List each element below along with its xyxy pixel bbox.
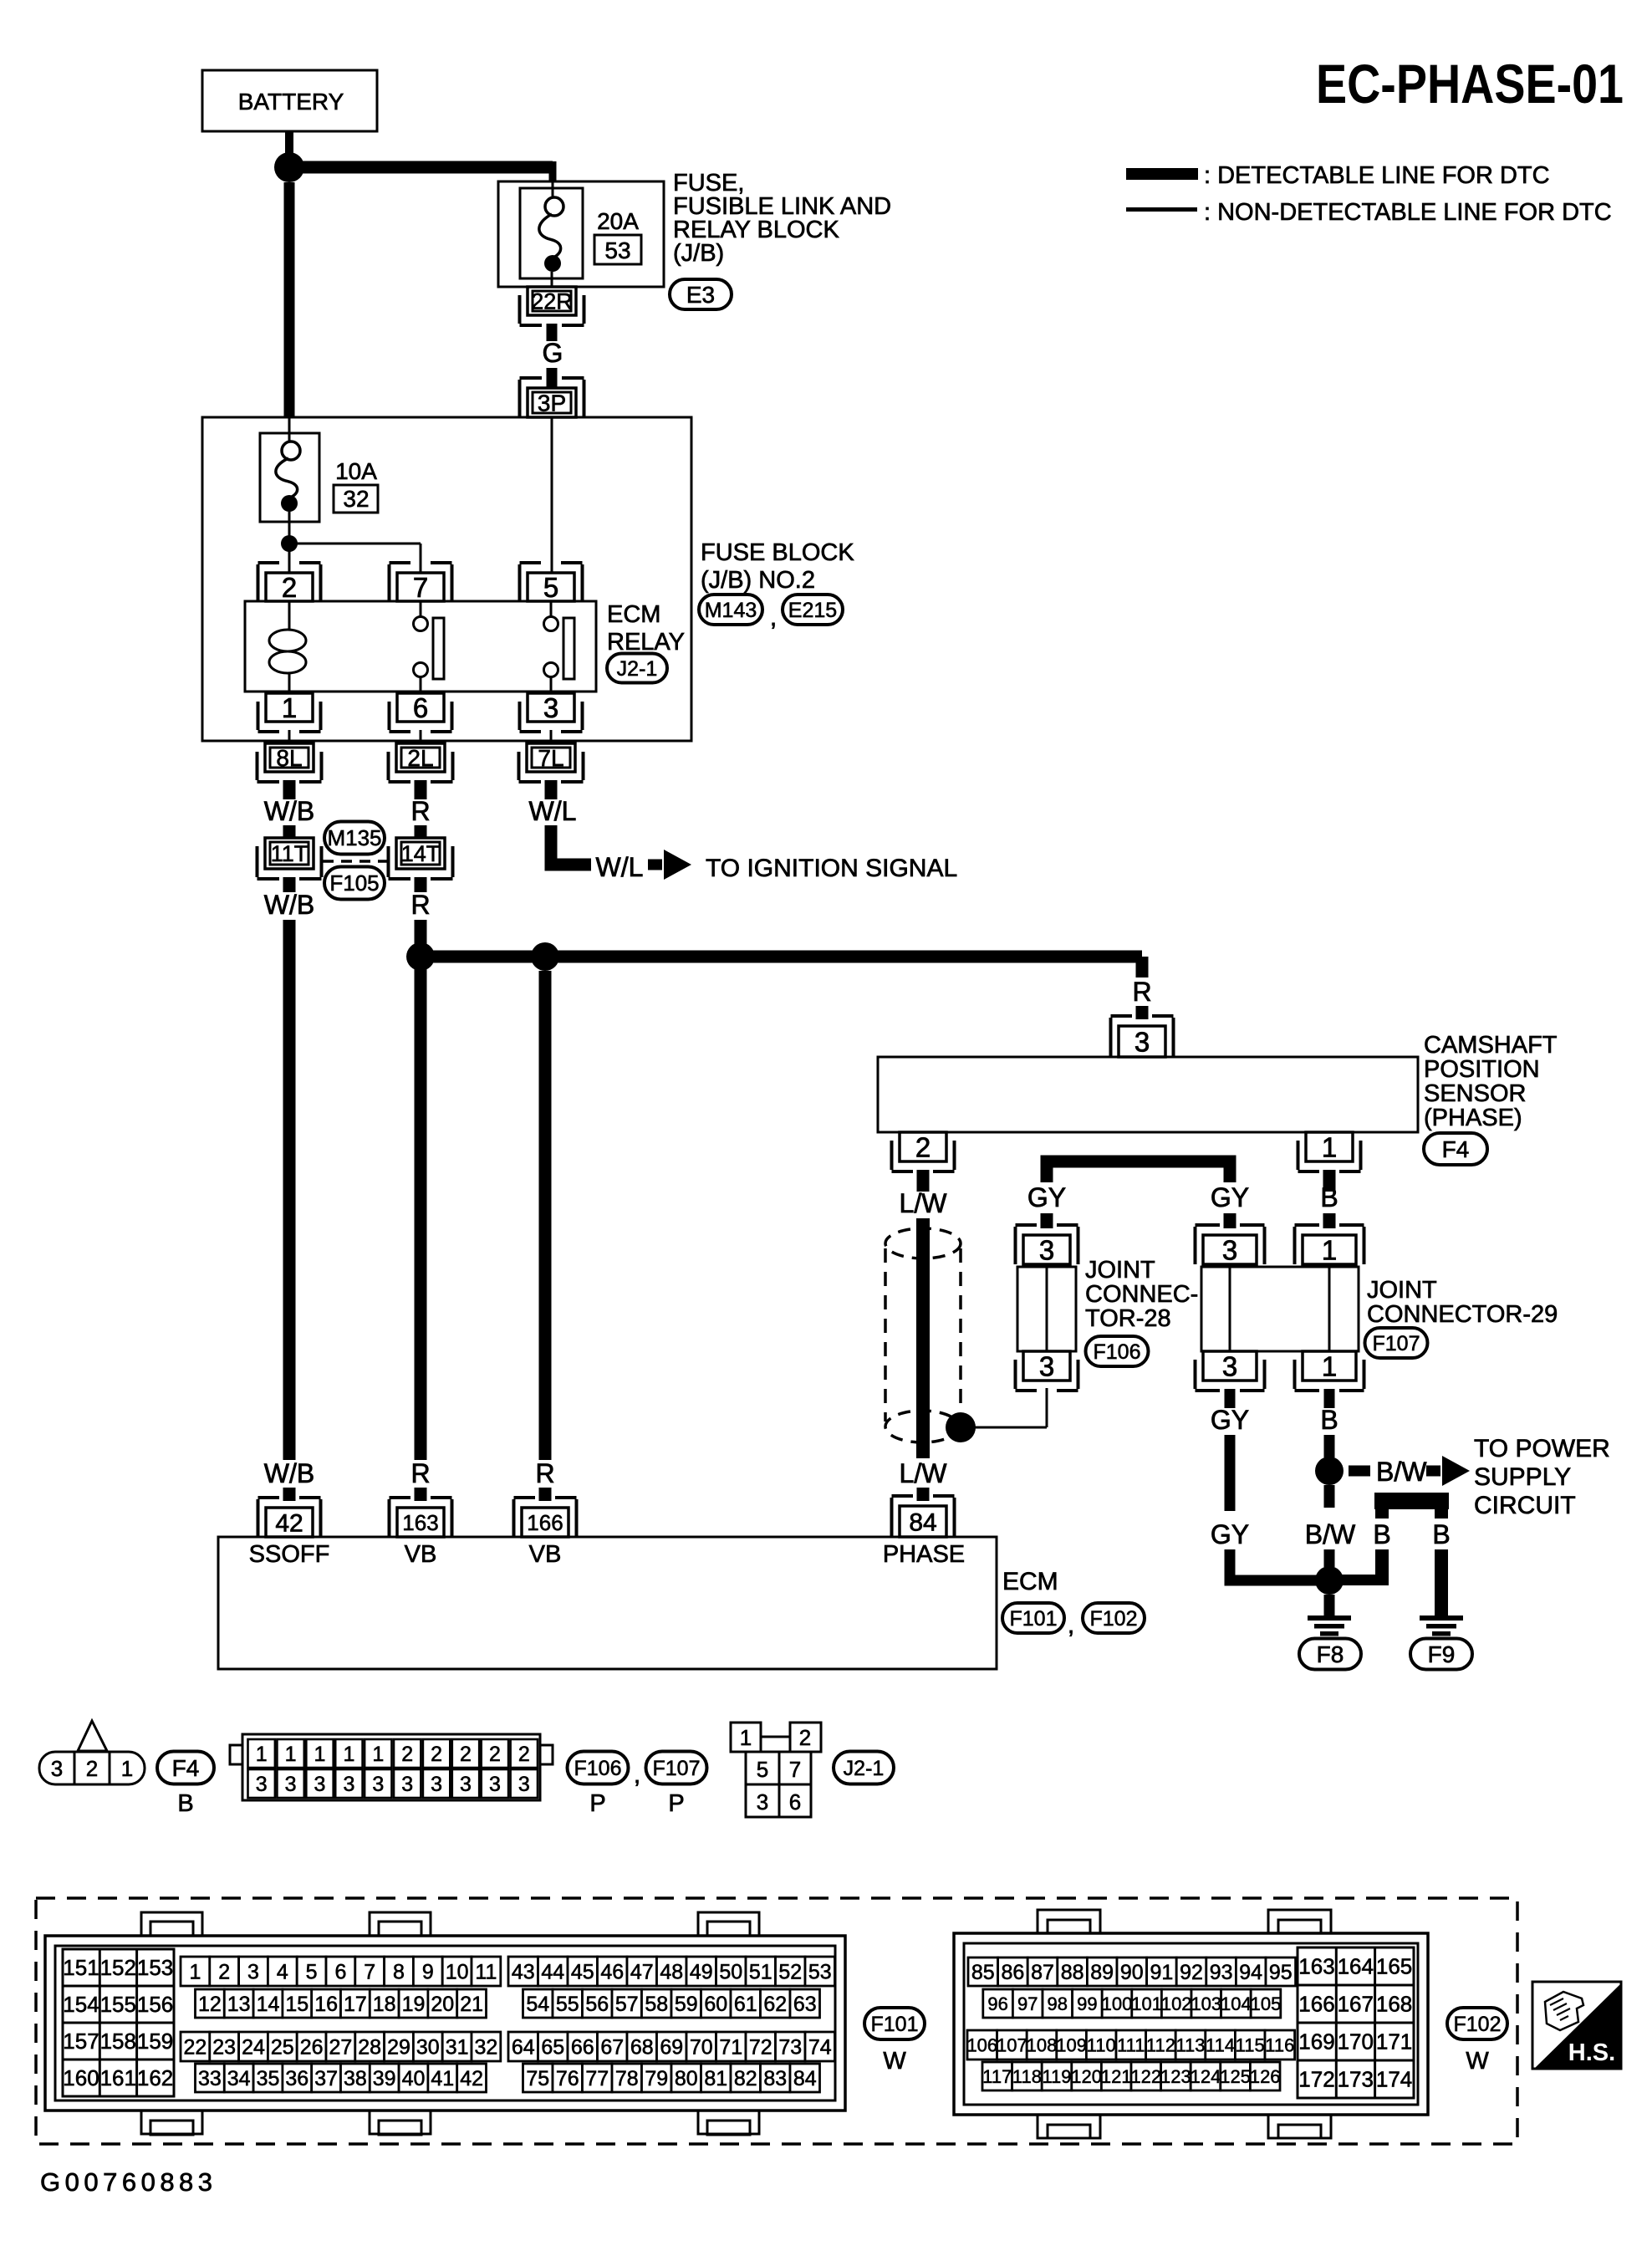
svg-text:75: 75 [526,2067,549,2090]
svg-text:JOINT: JOINT [1085,1257,1155,1284]
ECM F101 pins 12-21 row [196,1989,225,2018]
svg-text:48: 48 [660,1961,683,1984]
svg-text:166: 166 [1298,1992,1334,2017]
svg-text:3: 3 [1134,1026,1150,1057]
svg-text:2: 2 [460,1743,472,1766]
svg-text:2: 2 [799,1725,811,1750]
wire fuse 20A to 22R [551,272,553,287]
svg-text:88: 88 [1061,1961,1084,1984]
svg-text:99: 99 [1077,1993,1097,2014]
sensor pin 3 [1119,1026,1165,1057]
svg-text:L/W: L/W [900,1188,948,1218]
wire stub 11T down [283,877,296,892]
svg-text:60: 60 [704,1993,727,2016]
svg-text:7: 7 [413,572,428,603]
svg-text:10: 10 [446,1961,469,1984]
svg-text:110: 110 [1087,2034,1116,2055]
wire thick drop into fuse block E3 [549,161,557,182]
svg-text:F107: F107 [653,1757,701,1780]
svg-text:170: 170 [1338,2029,1374,2054]
wire stub 14T down [415,877,427,892]
svg-text:71: 71 [719,2036,742,2060]
ECM F102 pins 117-126 row [982,2062,1012,2090]
svg-text:93: 93 [1210,1961,1233,1984]
svg-text:2L: 2L [407,745,433,771]
wire stub into 11T [283,825,296,838]
wire stub GY into joint connector-29 [1224,1213,1236,1228]
wire stub 8L down [283,780,296,799]
svg-text:F106: F106 [1094,1340,1141,1364]
svg-text:1: 1 [282,692,297,723]
pin 3P [528,388,576,417]
svg-text:83: 83 [763,2067,787,2090]
wire B/W below node [1324,1485,1335,1508]
svg-text:84: 84 [909,1508,936,1536]
svg-text:B: B [177,1790,193,1817]
svg-text:113: 113 [1175,2034,1205,2055]
svg-text:ECM: ECM [1002,1568,1058,1595]
svg-text:36: 36 [285,2067,308,2090]
svg-text:W/L: W/L [596,852,644,882]
svg-text:TO IGNITION SIGNAL: TO IGNITION SIGNAL [706,855,957,882]
svg-text:R: R [410,890,430,920]
connector F4 oval (strip) [157,1752,214,1784]
joint connector-28 bottom pin 3 [1023,1351,1070,1381]
svg-text:32: 32 [474,2036,497,2060]
relay pin 6 [397,693,444,722]
svg-text:B: B [1373,1519,1390,1549]
svg-text:6: 6 [334,1961,346,1984]
svg-text:2: 2 [86,1756,98,1781]
svg-text:W/B: W/B [264,796,314,826]
svg-text:51: 51 [749,1961,772,1984]
svg-text:3: 3 [1222,1350,1237,1381]
svg-text:52: 52 [778,1961,802,1984]
wire into fuse 20A [552,181,554,198]
svg-text:61: 61 [734,1993,757,2016]
svg-text:156: 156 [137,1992,173,2017]
svg-text:SENSOR: SENSOR [1424,1080,1526,1107]
svg-text:E3: E3 [686,282,715,308]
svg-text:8: 8 [393,1961,405,1984]
label 32 box [334,485,378,513]
svg-text:37: 37 [314,2067,338,2090]
ECM pinout dashed border [36,1898,1517,2144]
svg-text:W/L: W/L [529,796,577,826]
svg-text:39: 39 [373,2067,396,2090]
svg-text:F107: F107 [1373,1332,1420,1355]
ECM F102 pins 163-174 grid [1298,1947,1414,2098]
pin 22R [528,287,576,315]
svg-text:157: 157 [63,2029,99,2054]
svg-text:2: 2 [401,1743,413,1766]
svg-text:2: 2 [489,1743,501,1766]
svg-text:2: 2 [518,1743,530,1766]
svg-text:49: 49 [690,1961,713,1984]
svg-text:76: 76 [556,2067,579,2090]
wire B down to node [1324,1435,1335,1457]
svg-text:115: 115 [1236,2034,1265,2055]
svg-text:1: 1 [256,1743,268,1766]
H.S. hologram logo [1532,1982,1621,2069]
wire stub W/B into pin 42 [283,1488,296,1501]
svg-text:GY: GY [1211,1405,1249,1435]
svg-text:38: 38 [344,2067,367,2090]
wire dash node to B/W arrow [1349,1466,1370,1477]
svg-text:108: 108 [1027,2034,1058,2055]
svg-text:3: 3 [1039,1234,1054,1265]
svg-text:3: 3 [401,1773,413,1796]
svg-text:160: 160 [63,2065,99,2090]
svg-text:CONNEC-: CONNEC- [1085,1281,1198,1308]
svg-text:B: B [1320,1405,1338,1435]
svg-text:174: 174 [1376,2067,1412,2092]
svg-text:3: 3 [343,1773,354,1796]
svg-text:G: G [543,338,563,368]
svg-text:1: 1 [314,1743,326,1766]
svg-text:114: 114 [1206,2034,1235,2055]
connector E3 oval [670,279,732,309]
wire W/B long down to ECM [283,920,296,1460]
svg-text:6: 6 [789,1789,801,1815]
svg-text:102: 102 [1161,1993,1192,2014]
svg-text:6: 6 [413,692,428,723]
sensor connector face triangle [78,1721,107,1751]
svg-text:117: 117 [982,2066,1012,2087]
wire relay pin1 to 8L [288,730,291,743]
sensor connector face 3-2-1 [39,1752,145,1784]
ground F8 symbol [1308,1616,1351,1621]
svg-text:112: 112 [1146,2034,1175,2055]
shield dashed right line [959,1248,962,1403]
svg-text:151: 151 [63,1955,99,1980]
svg-text:3: 3 [543,692,558,723]
relay pin 1 [266,693,313,722]
battery BATTERY box [202,70,377,131]
connector F106 oval (strip) [568,1752,629,1784]
joint connector-29 bottom pin 3 [1203,1351,1257,1381]
ECM F102 pins 106-116 row [967,2030,997,2060]
svg-text:F105: F105 [329,870,379,896]
wire stub B into joint connector-29 [1323,1213,1336,1228]
svg-text:SUPPLY: SUPPLY [1474,1463,1571,1491]
svg-text:104: 104 [1221,1993,1252,2014]
svg-text:TO POWER: TO POWER [1474,1435,1610,1462]
connector M135 oval [324,822,385,855]
svg-text:3: 3 [247,1961,259,1984]
svg-text:P: P [589,1790,605,1817]
ECM F101 pins 1-11 row [181,1957,210,1986]
pin 163 [397,1508,444,1537]
svg-text:5: 5 [543,572,558,603]
svg-text:97: 97 [1017,1993,1038,2014]
ECM F101 pins 75-84 row [523,2064,553,2092]
connector F106 oval [1086,1336,1149,1366]
svg-text:E215: E215 [788,599,837,622]
svg-text:123: 123 [1160,2066,1191,2087]
svg-text:154: 154 [63,1992,99,2017]
svg-text:32: 32 [343,486,369,512]
svg-text:45: 45 [571,1961,594,1984]
svg-text:F4: F4 [172,1755,200,1781]
svg-text:162: 162 [137,2065,173,2090]
svg-text:158: 158 [100,2029,136,2054]
svg-text:3: 3 [51,1756,63,1781]
pin 42 [266,1508,313,1537]
svg-text:GY: GY [1027,1182,1066,1212]
joint connector-29 bottom pin 1 [1303,1351,1356,1381]
node ground junction dot [1315,1566,1344,1595]
svg-text:58: 58 [645,1993,668,2016]
node R junction dot 1 [406,942,435,971]
svg-text:F101: F101 [871,2013,919,2036]
wire L/W down through shield [916,1218,930,1458]
svg-text:26: 26 [300,2036,324,2060]
svg-text:85: 85 [971,1961,995,1984]
svg-text:1: 1 [1322,1234,1337,1265]
svg-text:ECM: ECM [607,601,660,628]
ECM relay box [245,601,596,692]
ECM F101 pins 54-63 row [523,1989,553,2018]
joint connector-29 top pin 1 [1303,1235,1356,1264]
svg-text:F102: F102 [1090,1607,1138,1631]
wire stub sensor pin2 down [917,1170,930,1192]
svg-text:47: 47 [630,1961,654,1984]
node R junction dot 2 [531,942,559,971]
svg-text:28: 28 [358,2036,381,2060]
svg-text:94: 94 [1239,1961,1262,1984]
svg-text:3: 3 [1222,1234,1237,1265]
svg-text:65: 65 [541,2036,564,2060]
svg-text:53: 53 [604,237,630,263]
svg-text:126: 126 [1250,2066,1281,2087]
wire R long down to ECM [415,920,427,1460]
wire B/W to ground node [1324,1549,1335,1567]
svg-text:23: 23 [212,2036,236,2060]
connector F107 oval [1365,1328,1428,1358]
legend non-detectable line sample [1126,207,1197,212]
svg-text:53: 53 [808,1961,832,1984]
svg-text:165: 165 [1376,1954,1412,1979]
wire 3P to relay pin 5 [551,417,553,574]
svg-text:(J/B): (J/B) [673,240,724,267]
relay pin 3 [528,693,574,722]
svg-text:F4: F4 [1442,1136,1470,1162]
pin 2L [396,743,445,772]
svg-text:F101: F101 [1010,1607,1058,1631]
fuse block (J/B) NO.2 box [202,417,691,741]
wire W/L down and right [551,825,591,865]
wire GY bus [1047,1161,1230,1182]
ECM connector F102 housing [954,1933,1428,2115]
relay contact 7-6 [420,601,422,617]
ECM connector F101 housing [45,1936,845,2111]
svg-text:J2-1: J2-1 [844,1757,885,1780]
svg-text:73: 73 [778,2036,802,2060]
svg-text:2: 2 [915,1131,931,1162]
node shield drain dot [946,1412,976,1442]
svg-text:M143: M143 [705,599,757,622]
fuse/fusible-link/relay block E3 box [498,181,664,287]
svg-text:P: P [668,1790,684,1817]
svg-text:70: 70 [690,2036,713,2060]
connector F105 oval [324,867,385,900]
svg-text:3P: 3P [538,390,566,416]
sensor pin 1 [1306,1132,1353,1161]
wire B bridge bar [1374,1493,1449,1509]
svg-text:3: 3 [460,1773,472,1796]
svg-text:56: 56 [585,1993,609,2016]
svg-text:69: 69 [660,2036,683,2060]
svg-text:GY: GY [1211,1182,1249,1212]
relay pin 7 [397,573,444,601]
svg-text:81: 81 [704,2067,727,2090]
connector F101 oval [1002,1603,1064,1633]
svg-text:18: 18 [373,1993,396,2016]
svg-text:3: 3 [431,1773,442,1796]
fuse 10A symbol [282,442,300,460]
svg-text:163: 163 [402,1510,438,1535]
svg-text:40: 40 [402,2067,426,2090]
svg-text:SSOFF: SSOFF [249,1541,330,1568]
svg-text:(J/B) NO.2: (J/B) NO.2 [701,567,815,594]
svg-text:62: 62 [763,1993,787,2016]
wire stub into 14T [415,825,427,838]
joint connector-28 body [1017,1267,1076,1351]
svg-text:3: 3 [314,1773,326,1796]
svg-text:68: 68 [630,2036,654,2060]
svg-text:11: 11 [475,1961,497,1984]
shield dashed cylinder top ellipse [885,1228,961,1258]
wire stub sensor pin1 down [1323,1170,1336,1192]
svg-text:78: 78 [615,2067,639,2090]
svg-text:22: 22 [183,2036,206,2060]
svg-text:F9: F9 [1428,1641,1456,1667]
svg-text:119: 119 [1042,2066,1071,2087]
svg-text:106: 106 [966,2034,997,2055]
svg-text:1: 1 [1322,1131,1337,1162]
wire stub joint-29 pin1 down [1324,1389,1335,1408]
svg-text:1: 1 [189,1961,201,1984]
svg-text:CAMSHAFT: CAMSHAFT [1424,1032,1558,1059]
svg-text:GY: GY [1211,1519,1249,1549]
svg-text:R: R [1132,977,1151,1007]
svg-text:VB: VB [529,1541,562,1568]
svg-text:164: 164 [1338,1954,1374,1979]
svg-text:171: 171 [1376,2029,1412,2054]
svg-text:86: 86 [1001,1961,1024,1984]
svg-text:2: 2 [431,1743,442,1766]
svg-text:105: 105 [1251,1993,1282,2014]
svg-text:95: 95 [1269,1961,1293,1984]
wire R bus corner down [1136,957,1149,977]
svg-text:5: 5 [757,1757,768,1782]
pin 166 [522,1508,569,1537]
camshaft position sensor box [878,1057,1418,1132]
svg-text:31: 31 [446,2036,469,2060]
svg-text:120: 120 [1071,2066,1102,2087]
pin 84 [900,1506,946,1537]
svg-text:L/W: L/W [900,1458,948,1488]
wire node to relay pin 2 [288,544,291,574]
svg-text:14: 14 [257,1993,280,2016]
svg-text:,: , [1068,1611,1074,1639]
node fuse-to-relay junction dot [281,535,298,552]
svg-text:46: 46 [600,1961,624,1984]
svg-text:116: 116 [1265,2034,1294,2055]
svg-text:W/B: W/B [264,1458,314,1488]
relay contact 5-3 [550,601,553,617]
wire stub joint-29 pin3 down [1225,1389,1236,1408]
wire battery feed down to fuse block [284,182,295,418]
svg-text:7L: 7L [538,745,563,771]
svg-text:103: 103 [1191,1993,1221,2014]
node B/W junction dot [1315,1457,1344,1485]
svg-text:87: 87 [1031,1961,1054,1984]
arrow to ignition signal [648,860,662,870]
wire GY corner to ground node [1230,1549,1318,1580]
svg-text:7: 7 [789,1757,801,1782]
svg-text:F102: F102 [1454,2013,1502,2036]
relay pin 5 [528,573,574,601]
svg-text:B: B [1320,1182,1338,1212]
wire stub R into sensor pin 3 [1136,1006,1149,1019]
svg-text:42: 42 [275,1509,303,1537]
svg-text:59: 59 [675,1993,698,2016]
svg-text:90: 90 [1120,1961,1144,1984]
svg-text:29: 29 [387,2036,410,2060]
svg-text:1: 1 [343,1743,354,1766]
wire B bridge right leg lower [1435,1549,1448,1616]
connector F4 oval [1424,1133,1487,1165]
shield dashed bottom ellipse [885,1411,959,1442]
wire relay pin3 to 7L [550,730,553,743]
svg-text:167: 167 [1338,1992,1374,2017]
svg-text:89: 89 [1090,1961,1114,1984]
svg-text:33: 33 [198,2067,222,2090]
svg-text:54: 54 [526,1993,549,2016]
wire thick R horizontal bus [421,951,1142,963]
pin 11T [265,838,314,869]
svg-text:82: 82 [734,2067,757,2090]
svg-text:98: 98 [1048,1993,1068,2014]
svg-text:W/B: W/B [264,890,314,920]
relay coil [288,601,291,630]
relay J2-1 face [731,1723,761,1752]
wire stub to ground F8 [1324,1595,1335,1616]
svg-text:H.S.: H.S. [1568,2039,1615,2066]
node battery junction dot [274,152,304,182]
svg-text:67: 67 [600,2036,624,2060]
svg-text:M135: M135 [327,825,381,850]
connector F8 oval [1299,1639,1361,1670]
relay pin 2 [266,573,313,601]
svg-text:118: 118 [1012,2066,1042,2087]
svg-text:3: 3 [757,1789,768,1815]
svg-text:1: 1 [740,1725,752,1750]
svg-text:152: 152 [100,1955,136,1980]
svg-text:66: 66 [571,2036,594,2060]
svg-text:15: 15 [285,1993,308,2016]
svg-text:41: 41 [431,2067,454,2090]
svg-text:42: 42 [460,2067,483,2090]
svg-text:B: B [1432,1519,1450,1549]
connector F9 oval [1410,1639,1472,1670]
svg-text:92: 92 [1180,1961,1203,1984]
wire stub R into pin 163 [415,1488,427,1501]
svg-text:77: 77 [585,2067,609,2090]
svg-text:44: 44 [541,1961,564,1984]
